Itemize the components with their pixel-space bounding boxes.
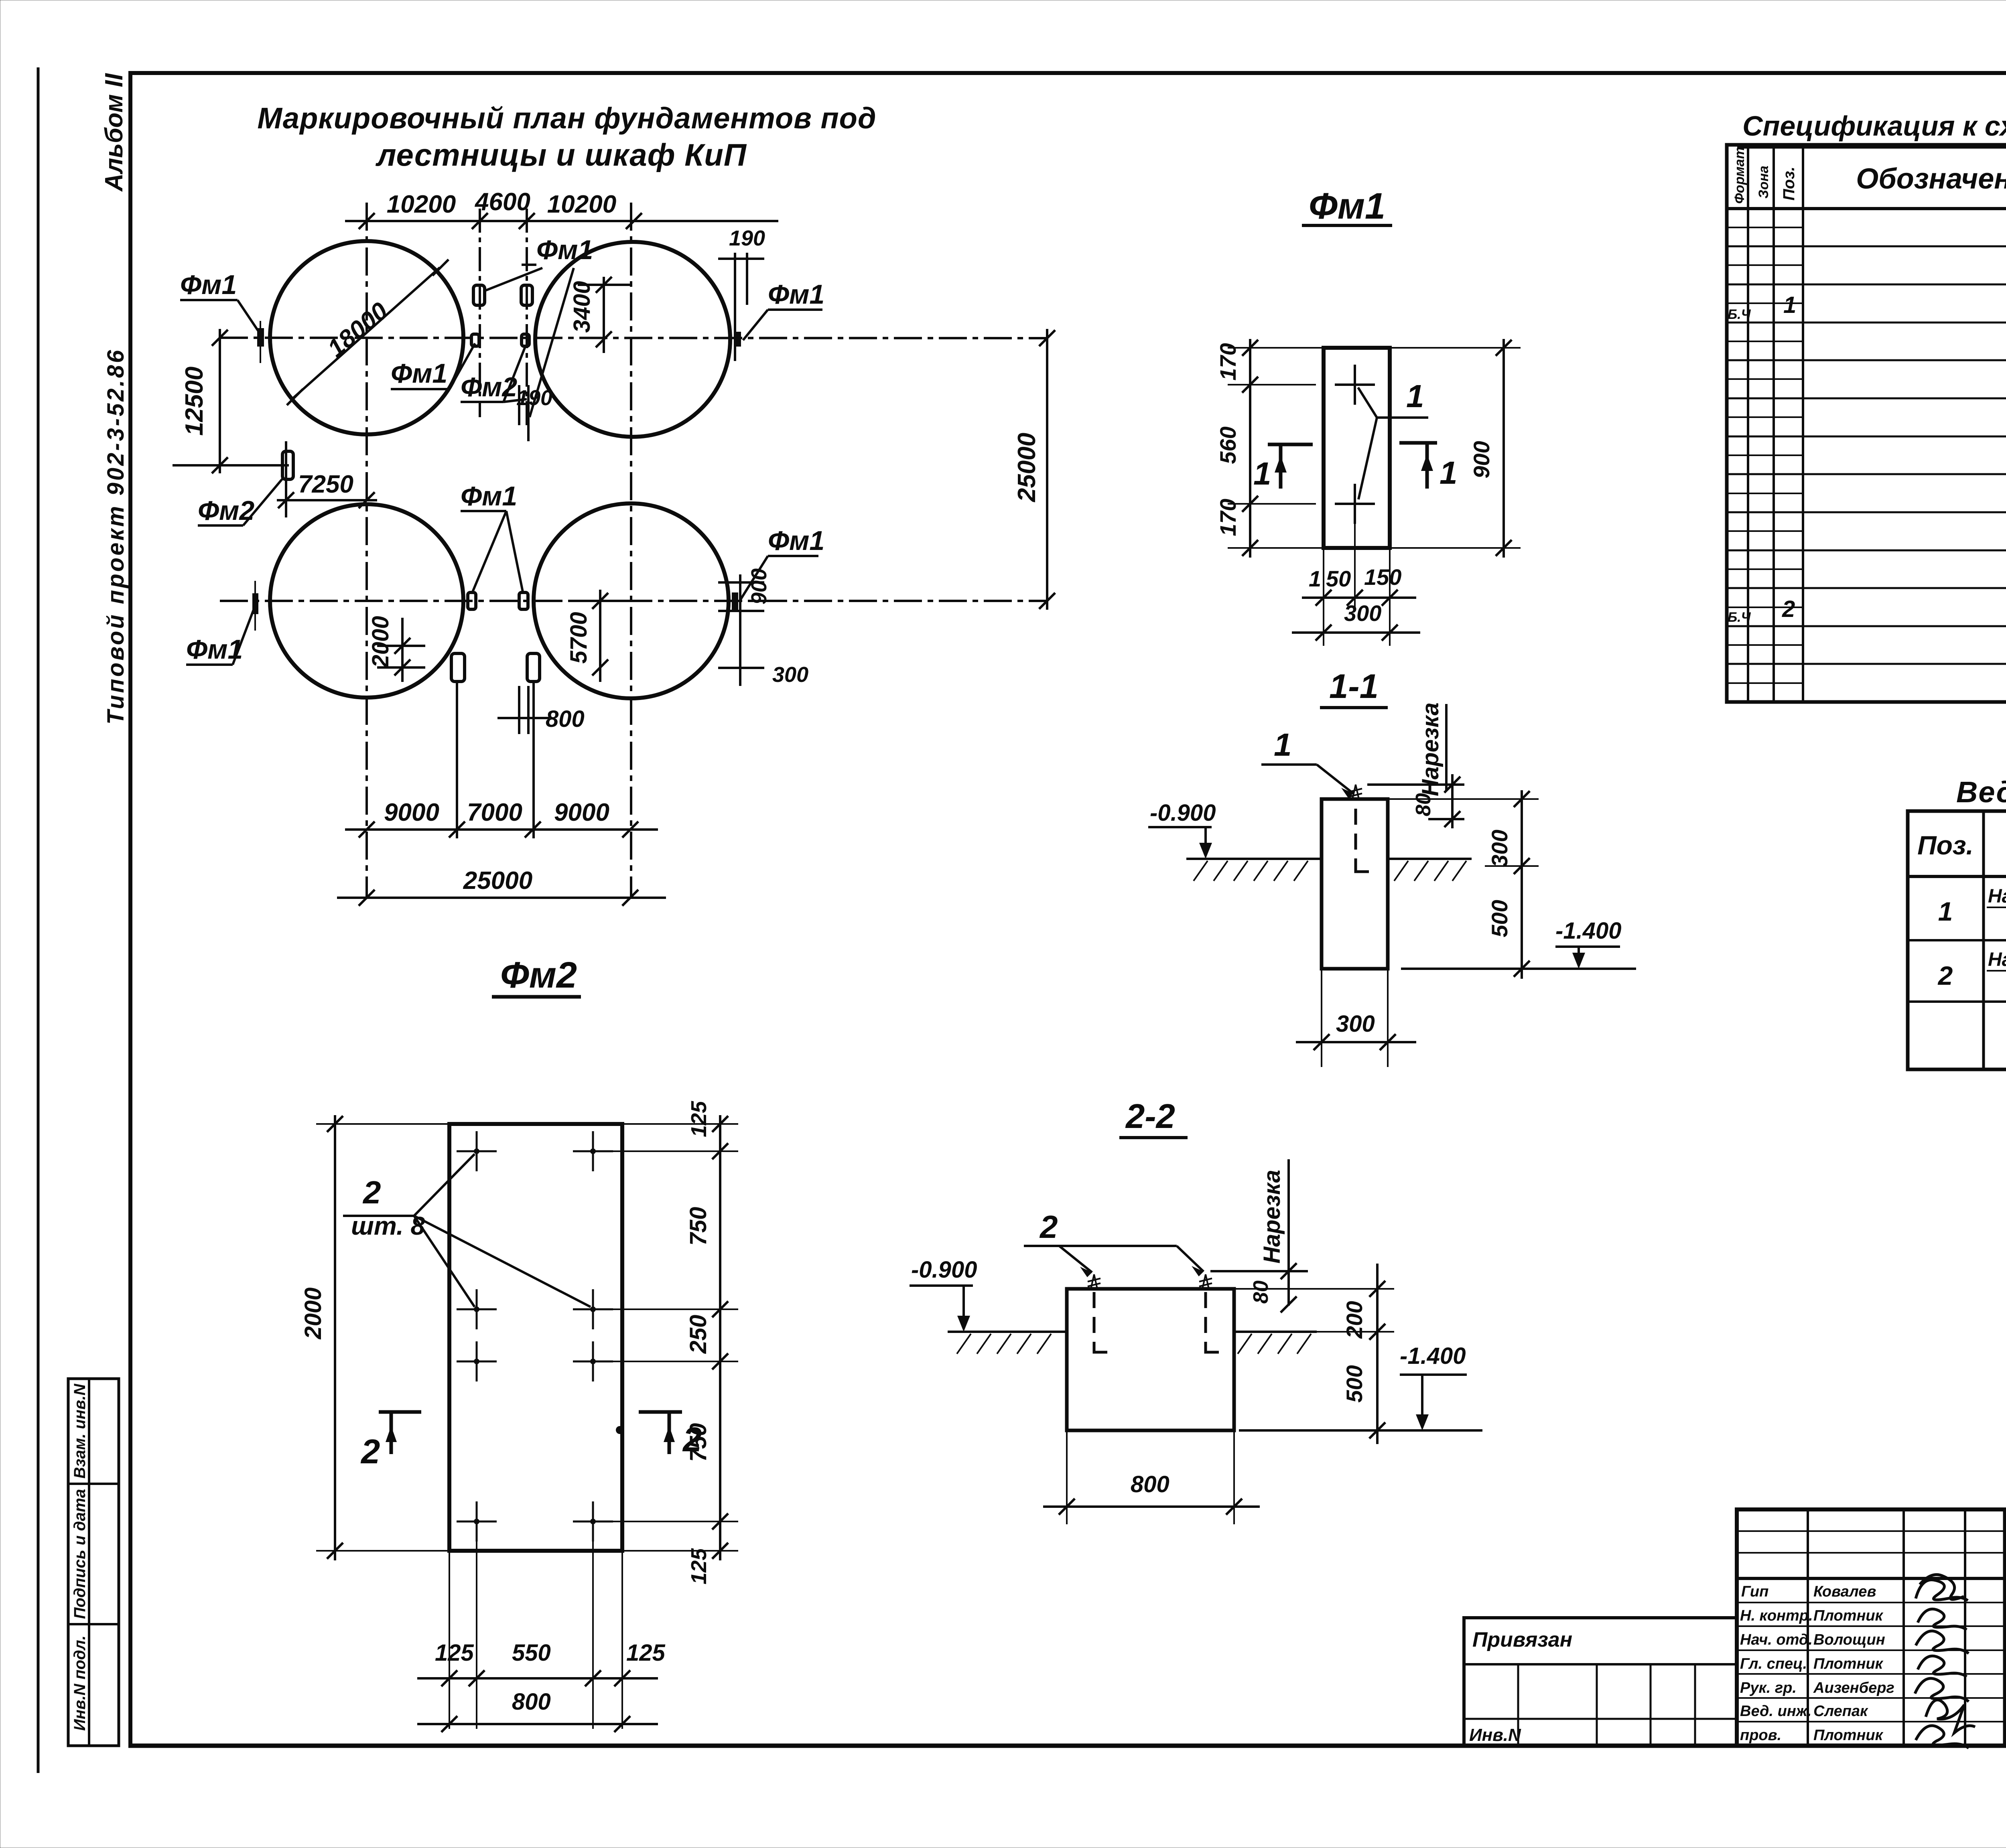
svg-text:2: 2 — [682, 1421, 702, 1459]
svg-text:800: 800 — [546, 706, 585, 732]
svg-text:Фм1: Фм1 — [768, 525, 824, 556]
svg-text:1: 1 — [1274, 727, 1292, 763]
svg-text:Инв.N подл.: Инв.N подл. — [71, 1635, 89, 1731]
svg-text:2: 2 — [360, 1433, 380, 1471]
svg-text:560: 560 — [1215, 426, 1241, 464]
svg-text:200: 200 — [1342, 1301, 1367, 1339]
svg-text:500: 500 — [1342, 1365, 1367, 1402]
svg-text:5700: 5700 — [566, 612, 592, 663]
svg-text:Альбом II: Альбом II — [100, 73, 128, 192]
svg-text:Нарезка: Нарезка — [1988, 949, 2006, 970]
svg-text:Поз.: Поз. — [1780, 166, 1798, 201]
svg-text:Фундаменты под лестни-: Фундаменты под лестни- — [2004, 1696, 2006, 1721]
svg-text:500: 500 — [1487, 900, 1512, 937]
svg-text:Поз.: Поз. — [1917, 830, 1974, 860]
svg-text:7000: 7000 — [467, 799, 522, 826]
svg-text:Вед. инж.: Вед. инж. — [1740, 1703, 1811, 1720]
svg-text:1-1: 1-1 — [1329, 667, 1379, 706]
svg-text:1: 1 — [1440, 455, 1458, 491]
svg-text:-0.900: -0.900 — [1150, 800, 1216, 826]
svg-text:Нарезка: Нарезка — [1417, 702, 1444, 796]
svg-text:Рук. гр.: Рук. гр. — [1740, 1680, 1797, 1696]
svg-text:-0.900: -0.900 — [911, 1257, 977, 1283]
svg-text:125: 125 — [687, 1101, 711, 1137]
svg-text:Б.Ч: Б.Ч — [1728, 307, 1751, 322]
svg-text:Привязан: Привязан — [1472, 1628, 1572, 1651]
svg-text:Н. контр.: Н. контр. — [1740, 1607, 1813, 1624]
svg-text:2000: 2000 — [367, 616, 394, 668]
svg-text:Гл. спец.: Гл. спец. — [1740, 1655, 1807, 1672]
svg-text:1: 1 — [1309, 566, 1321, 591]
svg-text:170: 170 — [1215, 343, 1241, 380]
svg-text:Фм1: Фм1 — [180, 270, 237, 300]
svg-text:1: 1 — [1253, 456, 1271, 491]
svg-text:Плотник: Плотник — [1813, 1727, 1884, 1744]
svg-text:1: 1 — [1783, 292, 1796, 318]
svg-text:18000: 18000 — [323, 297, 393, 363]
svg-text:Типовой проект 902-3-52.86: Типовой проект 902-3-52.86 — [103, 348, 129, 725]
svg-text:Плотник: Плотник — [1813, 1655, 1884, 1672]
svg-text:900: 900 — [747, 568, 771, 605]
svg-text:2000: 2000 — [300, 1287, 326, 1339]
svg-text:550: 550 — [512, 1640, 551, 1666]
svg-text:Инв.N: Инв.N — [1469, 1725, 1521, 1745]
svg-text:Спецификация к схеме расположе: Спецификация к схеме расположения фундам… — [1742, 110, 2006, 142]
svg-text:Взам. инв.N: Взам. инв.N — [71, 1383, 89, 1479]
svg-text:3400: 3400 — [569, 281, 595, 333]
svg-text:Подпись и дата: Подпись и дата — [71, 1489, 89, 1619]
svg-text:Фм1: Фм1 — [768, 279, 824, 310]
svg-text:Аизенберг: Аизенберг — [1813, 1680, 1894, 1696]
svg-text:Фм1: Фм1 — [1309, 186, 1385, 227]
svg-text:9000: 9000 — [384, 799, 439, 826]
svg-text:Нарезка: Нарезка — [1259, 1170, 1285, 1264]
svg-text:125: 125 — [435, 1640, 474, 1666]
svg-text:25000: 25000 — [463, 867, 532, 895]
svg-text:900: 900 — [1469, 441, 1494, 478]
svg-text:10200: 10200 — [547, 191, 616, 218]
svg-text:750: 750 — [685, 1207, 711, 1246]
svg-text:300: 300 — [1336, 1011, 1375, 1037]
svg-text:80: 80 — [1249, 1280, 1273, 1304]
svg-text:2-2: 2-2 — [1125, 1097, 1175, 1136]
svg-text:125: 125 — [687, 1548, 711, 1584]
svg-text:Ведомость деталей: Ведомость деталей — [1956, 775, 2006, 809]
svg-text:2: 2 — [1039, 1209, 1058, 1245]
svg-text:150: 150 — [1364, 564, 1401, 590]
svg-text:Нарезка: Нарезка — [1988, 886, 2006, 907]
svg-text:12500: 12500 — [181, 367, 208, 436]
svg-text:2: 2 — [1782, 596, 1795, 622]
svg-text:1: 1 — [1406, 378, 1424, 414]
svg-text:2: 2 — [362, 1175, 381, 1210]
svg-text:-1.400: -1.400 — [1555, 918, 1621, 944]
svg-text:Плотник: Плотник — [1813, 1607, 1884, 1624]
svg-text:Нач. отд.: Нач. отд. — [1740, 1631, 1813, 1648]
svg-text:125: 125 — [626, 1640, 666, 1666]
svg-text:Б.Ч: Б.Ч — [1728, 610, 1751, 625]
svg-text:лестницы и шкаф КиП: лестницы и шкаф КиП — [375, 137, 747, 172]
svg-text:Обозначение: Обозначение — [1856, 163, 2006, 195]
svg-text:250: 250 — [685, 1315, 711, 1354]
svg-text:Зона: Зона — [1756, 166, 1771, 199]
svg-text:800: 800 — [512, 1689, 551, 1715]
svg-text:10200: 10200 — [387, 191, 456, 218]
svg-text:300: 300 — [1344, 600, 1381, 626]
svg-text:Волощин: Волощин — [1813, 1631, 1885, 1648]
svg-text:4600: 4600 — [474, 188, 530, 216]
svg-text:Маркировочный план фундамент: Маркировочный план фундаментов под — [257, 101, 876, 135]
svg-text:Фм1: Фм1 — [391, 358, 447, 389]
svg-text:190: 190 — [729, 226, 765, 250]
svg-text:Формат: Формат — [1732, 147, 1747, 204]
svg-text:пров.: пров. — [1740, 1727, 1781, 1744]
svg-text:Слепак: Слепак — [1813, 1703, 1868, 1720]
svg-text:Ковалев: Ковалев — [1813, 1583, 1876, 1600]
svg-text:Фм1: Фм1 — [461, 481, 517, 511]
svg-text:Гип: Гип — [1741, 1583, 1768, 1600]
svg-text:Фм2: Фм2 — [500, 955, 577, 996]
svg-text:80: 80 — [1412, 793, 1435, 816]
svg-text:25000: 25000 — [1013, 433, 1041, 502]
svg-text:170: 170 — [1215, 499, 1241, 536]
svg-text:9000: 9000 — [554, 799, 609, 826]
svg-text:-1.400: -1.400 — [1400, 1343, 1466, 1369]
svg-text:1: 1 — [1938, 897, 1953, 926]
svg-text:Фм1: Фм1 — [536, 235, 593, 265]
svg-text:300: 300 — [772, 663, 808, 687]
svg-text:7250: 7250 — [298, 471, 353, 498]
svg-text:50: 50 — [1326, 566, 1351, 591]
svg-text:2: 2 — [1937, 961, 1953, 990]
svg-text:300: 300 — [1487, 830, 1512, 867]
svg-text:800: 800 — [1131, 1471, 1169, 1497]
